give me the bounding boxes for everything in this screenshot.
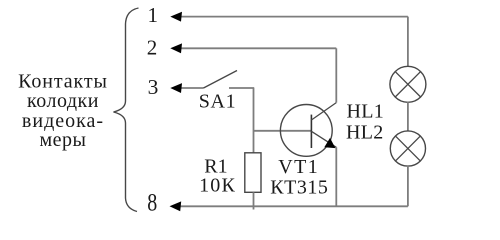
- svg-text:КТ315: КТ315: [270, 177, 328, 199]
- wire below resistor: [253, 192, 255, 209]
- transistor VT1 emitter lead: [311, 131, 336, 147]
- wire pin8 bottom horizontal: [175, 205, 408, 207]
- lamp HL1 circle: [390, 66, 426, 102]
- wire pin2 horizontal: [176, 47, 336, 49]
- wire right bottom vertical: [407, 166, 409, 206]
- wire pin1 horizontal: [176, 16, 408, 18]
- svg-text:1: 1: [147, 3, 158, 27]
- resistor R1 body: [245, 153, 261, 193]
- switch SA1 blade: [204, 71, 238, 89]
- wire pin3 to switch: [176, 87, 204, 89]
- arrow pin3: [170, 83, 182, 93]
- svg-text:2: 2: [147, 35, 158, 59]
- transistor VT1 collector lead: [311, 103, 336, 120]
- svg-text:меры: меры: [40, 129, 87, 151]
- left label text: Контакты колодки видеока-меры: [18, 70, 108, 151]
- arrow pin8: [170, 201, 182, 211]
- arrow pin2: [170, 43, 182, 53]
- curly brace: [114, 8, 139, 212]
- svg-text:HL2: HL2: [346, 121, 384, 143]
- svg-text:3: 3: [148, 75, 159, 99]
- wire base lead: [254, 130, 312, 132]
- arrow pin1: [170, 12, 182, 22]
- lamp HL2 circle: [390, 131, 425, 166]
- lamp HL2 cross: [396, 136, 421, 161]
- wire right top vertical: [407, 17, 409, 67]
- svg-text:VT1: VT1: [278, 156, 319, 178]
- wire down from switch to resistor: [253, 88, 255, 154]
- svg-text:HL1: HL1: [347, 100, 385, 122]
- transistor VT1 base bar: [310, 115, 312, 148]
- wire emitter vertical: [335, 147, 337, 206]
- switch SA1 fixed contact wire: [229, 87, 254, 89]
- svg-text:10К: 10К: [199, 175, 236, 197]
- wire collector vertical: [335, 48, 337, 102]
- transistor VT1 circle: [280, 104, 332, 156]
- wire between lamps: [407, 102, 409, 131]
- svg-text:8: 8: [147, 188, 157, 216]
- svg-text:SA1: SA1: [199, 91, 236, 113]
- lamp HL1 cross: [395, 72, 420, 97]
- transistor VT1 emitter arrow: [324, 138, 335, 148]
- svg-text:колодки: колодки: [27, 90, 99, 112]
